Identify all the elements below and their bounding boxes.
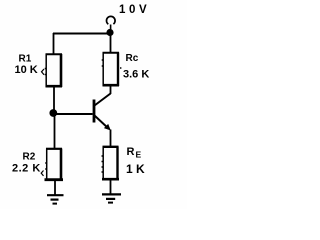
wire emitter to RE [110, 130, 112, 147]
resistor R1 [45, 54, 62, 87]
resistor Rc [102, 53, 122, 87]
wire Rc bottom to collector [110, 86, 112, 94]
wire Rc top [110, 35, 112, 53]
svg-text:2.2 K: 2.2 K [12, 162, 41, 174]
transistor emitter arrow [104, 124, 111, 131]
wire R2 bottom [54, 181, 56, 196]
wire base [53, 113, 93, 115]
transistor Q1 [94, 94, 111, 129]
node base junction [49, 109, 57, 117]
wire RE bottom [110, 180, 112, 194]
svg-text:1 K: 1 K [126, 162, 145, 176]
svg-text:R2: R2 [23, 152, 36, 163]
node Vcc junction [106, 29, 113, 36]
resistor R2 [45, 149, 64, 181]
resistor RE [102, 147, 120, 181]
svg-text:3.6 K: 3.6 K [123, 69, 149, 81]
svg-text:10 K: 10 K [15, 64, 38, 76]
svg-text:10V: 10V [119, 4, 150, 16]
svg-text:R: R [127, 146, 135, 158]
wire R2 top [54, 115, 56, 148]
scan artifact R2 [41, 171, 43, 176]
ground right [102, 194, 121, 202]
wire R1 bottom [53, 87, 55, 111]
svg-text:Rc: Rc [126, 53, 139, 64]
terminal 10V [106, 16, 115, 24]
scan artifact R1 [42, 69, 45, 75]
svg-text:E: E [136, 150, 142, 160]
wire terminal lead [110, 25, 112, 30]
wire top rail [53, 33, 110, 35]
wire R1 top [53, 33, 55, 54]
ground left [47, 195, 64, 203]
